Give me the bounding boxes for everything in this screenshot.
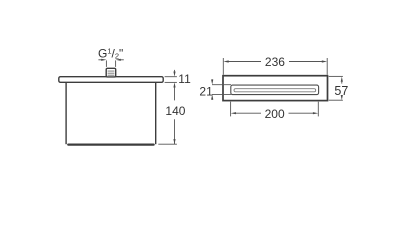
dimension 140 extension line bottom	[158, 143, 177, 145]
svg-text:11: 11	[178, 72, 191, 86]
svg-text:236: 236	[265, 55, 285, 69]
top view slot	[231, 85, 319, 95]
top view outer rectangle	[223, 76, 328, 101]
dimension 140 line and bottom arrow	[174, 119, 176, 144]
svg-text:200: 200	[265, 107, 285, 121]
front view body	[66, 82, 156, 144]
svg-text:140: 140	[165, 104, 185, 118]
dimension 57 line and arrows	[341, 82, 343, 97]
front view top flange	[59, 77, 163, 83]
threaded nipple G1/2	[106, 68, 116, 77]
svg-text:57: 57	[334, 84, 348, 98]
dimension 200 line and arrows	[235, 112, 313, 114]
dimension G1/2 arrows and extension lines	[98, 60, 123, 67]
dimension 21 extension lines	[212, 85, 231, 95]
svg-text:21: 21	[199, 84, 213, 98]
dimension 200 extension lines	[231, 102, 319, 117]
dimension 57 extension lines	[329, 76, 343, 100]
svg-text:G1/2": G1/2"	[98, 46, 123, 60]
dimension 11 line and arrows	[174, 70, 176, 101]
dimension 21 line and arrows	[211, 79, 213, 100]
dimension 236 extension lines	[223, 58, 327, 75]
top view inner pill	[234, 89, 316, 92]
dimension 236 line and arrows	[228, 61, 323, 63]
dimension 11 extension lines	[165, 77, 177, 83]
